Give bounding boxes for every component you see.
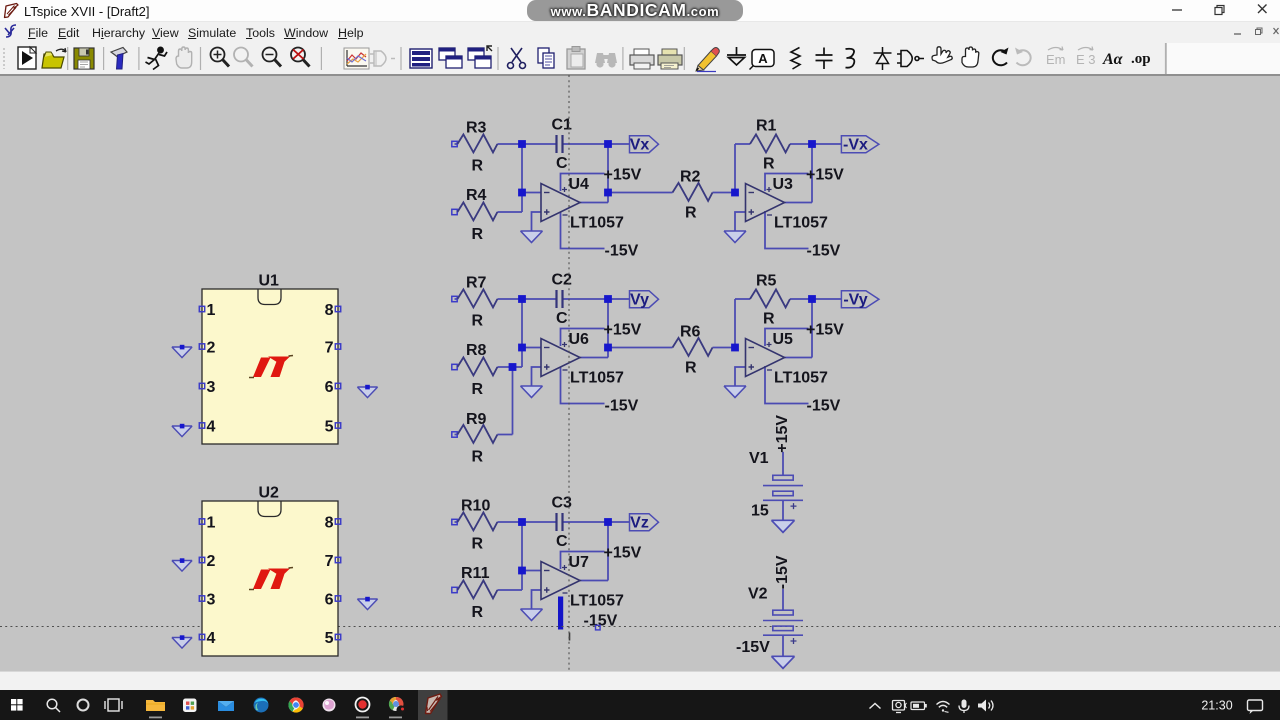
resistor R6 <box>673 324 713 377</box>
node A1 junction <box>518 140 526 148</box>
svg-text:R: R <box>685 205 697 222</box>
svg-text:R5: R5 <box>756 273 777 290</box>
svg-text:LT1057: LT1057 <box>570 370 624 387</box>
resistor R5 <box>750 273 790 328</box>
svg-text:C: C <box>556 155 568 172</box>
wire U4 V+ to +15V <box>561 174 605 192</box>
wire R4 to node C1 <box>497 211 522 213</box>
node C1 junction <box>518 189 526 197</box>
mouse anchor square on crosshair <box>596 625 601 630</box>
svg-text:U7: U7 <box>569 554 590 571</box>
wire U6 noninverting to ground <box>532 367 542 386</box>
voltage source V2 <box>736 586 803 657</box>
svg-text:R: R <box>472 226 484 243</box>
U1 pin squares <box>199 306 340 428</box>
svg-text:C1: C1 <box>552 117 573 134</box>
ground at U2 pin 6 <box>357 597 377 610</box>
highlighted wire segment being drawn at U7 V- <box>558 597 563 630</box>
svg-text:+15V: +15V <box>774 415 791 453</box>
svg-text:7: 7 <box>325 340 334 357</box>
wire node E2 up to R5 <box>735 299 750 348</box>
svg-text:6: 6 <box>325 379 334 396</box>
ground below V1 <box>771 520 794 532</box>
wire U7 output <box>580 522 608 581</box>
ground below U3 <box>724 231 746 243</box>
taskbar <box>0 690 1280 720</box>
capacitor C2 <box>552 272 573 328</box>
resistor R7 <box>452 275 498 330</box>
svg-text:2: 2 <box>207 553 216 570</box>
node F1 junction <box>808 140 816 148</box>
node E2 junction <box>731 344 739 352</box>
svg-text:U5: U5 <box>773 331 794 348</box>
svg-text:V2: V2 <box>748 586 768 603</box>
wire V1 top <box>782 452 784 476</box>
svg-text:-15V: -15V <box>774 555 791 589</box>
wire R5 to node F2 <box>790 298 812 300</box>
ground at U1 pin 6 <box>357 385 377 398</box>
svg-text:2: 2 <box>207 340 216 357</box>
svg-text:U1: U1 <box>259 273 280 290</box>
svg-text:15: 15 <box>751 503 769 520</box>
wire R8 to node <box>497 366 522 368</box>
svg-text:-15V: -15V <box>807 243 841 260</box>
svg-text:R7: R7 <box>466 275 487 292</box>
wire U3 noninverting to ground <box>735 212 746 231</box>
svg-text:21:30: 21:30 <box>1201 699 1232 713</box>
svg-text:5: 5 <box>325 419 334 436</box>
svg-text:R: R <box>763 311 775 328</box>
node A3 junction <box>518 518 526 526</box>
svg-text:R2: R2 <box>680 169 701 186</box>
svg-text:+15V: +15V <box>806 167 844 184</box>
LT logo U1 <box>249 356 293 378</box>
app icon <box>3 2 20 19</box>
svg-text:7: 7 <box>325 553 334 570</box>
wire R6 to node E2 <box>713 347 736 349</box>
wire U3 output up to node F1 <box>784 144 812 203</box>
net flag -Vx <box>841 136 879 154</box>
svg-text:-Vy: -Vy <box>843 292 867 309</box>
node A2 junction <box>518 295 526 303</box>
wire V1 bottom to ground <box>782 500 784 520</box>
wire U6 V+ to +15V <box>561 329 605 347</box>
MDI child icon + menu <box>2 23 20 40</box>
wire V2 top <box>782 589 784 610</box>
svg-text:R: R <box>472 604 484 621</box>
wire C2 to Vy flag <box>563 298 630 300</box>
wire inverting input U4 <box>522 192 541 194</box>
svg-text:R6: R6 <box>680 324 701 341</box>
svg-text:3: 3 <box>207 379 216 396</box>
op-amp U7 <box>541 554 624 610</box>
node C3 junction <box>518 567 526 575</box>
window buttons <box>1160 0 1280 20</box>
svg-text:U3: U3 <box>773 176 794 193</box>
svg-text:R11: R11 <box>461 565 490 582</box>
MDI child window buttons <box>1230 23 1280 40</box>
svg-text:.op: .op <box>1131 51 1151 67</box>
node R8/R9 junction <box>509 363 517 371</box>
svg-text:C: C <box>556 533 568 550</box>
svg-text:U6: U6 <box>569 331 590 348</box>
voltage source V1 <box>749 450 803 520</box>
op-amp U3 <box>746 176 829 232</box>
wire node R8 down to R9 <box>512 367 514 435</box>
svg-text:Em: Em <box>1046 52 1066 67</box>
wire node F2 to -Vy flag <box>812 298 841 300</box>
wire U3 V+ to +15V <box>765 174 809 192</box>
resistor R4 <box>452 187 498 243</box>
svg-text:5: 5 <box>325 630 334 647</box>
svg-text:R: R <box>472 158 484 175</box>
ground below U6 <box>521 386 543 398</box>
wire R1 to node F1 <box>790 143 812 145</box>
toolbar icons <box>0 43 1280 74</box>
node C2 junction <box>518 344 526 352</box>
svg-text:A: A <box>758 51 768 66</box>
wire R7 to C2 <box>455 298 557 300</box>
svg-text:C: C <box>556 310 568 327</box>
svg-text:R3: R3 <box>466 120 487 137</box>
capacitor C3 <box>552 495 573 551</box>
svg-text:R: R <box>472 381 484 398</box>
svg-text:Vz: Vz <box>630 515 649 532</box>
node B1 junction <box>604 140 612 148</box>
wire R11 to node C3 <box>497 589 522 591</box>
svg-text:8: 8 <box>325 302 334 319</box>
resistor R2 <box>673 169 713 222</box>
wire node D2 to R6 <box>608 347 673 349</box>
net flag Vy <box>630 291 659 309</box>
svg-text:LT1057: LT1057 <box>570 593 624 610</box>
svg-text:R: R <box>472 313 484 330</box>
capacitor C1 <box>552 117 573 173</box>
svg-text:1: 1 <box>207 302 216 319</box>
wire node A2 down <box>521 299 523 367</box>
svg-text:R9: R9 <box>466 411 487 428</box>
wire U5 output up to node F2 <box>784 299 812 358</box>
svg-text:LT1057: LT1057 <box>774 215 828 232</box>
svg-text:E 3: E 3 <box>1076 52 1096 67</box>
wire R3 to C1 <box>455 143 557 145</box>
node F2 junction <box>808 295 816 303</box>
svg-text:1: 1 <box>207 515 216 532</box>
wire U5 V+ to +15V <box>765 329 809 347</box>
wire V2 bottom to ground <box>782 635 784 656</box>
svg-text:R10: R10 <box>461 498 490 515</box>
wire node E1 up to R1 <box>735 144 750 193</box>
wire R9 horizontal <box>455 434 513 436</box>
node B3 junction <box>604 518 612 526</box>
op-amp U6 <box>541 331 624 387</box>
svg-text:8: 8 <box>325 515 334 532</box>
IC U1 body <box>202 273 338 445</box>
resistor R11 <box>452 565 498 621</box>
wire R2 to node E1 <box>713 192 736 194</box>
svg-text:R4: R4 <box>466 187 487 204</box>
svg-text:LT1057: LT1057 <box>774 370 828 387</box>
op-amp U4 <box>541 176 624 232</box>
svg-text:-Vx: -Vx <box>843 137 868 154</box>
ground below U4 <box>521 231 543 243</box>
wire U3 V- to -15V <box>765 211 809 249</box>
svg-text:+15V: +15V <box>806 322 844 339</box>
svg-text:U4: U4 <box>569 176 590 193</box>
svg-text:4: 4 <box>207 630 216 647</box>
wire U7 V+ to +15V <box>561 552 605 570</box>
wire U7 noninverting to ground <box>532 590 542 609</box>
U2 pin numbers <box>207 515 334 648</box>
svg-text:-15V: -15V <box>605 243 639 260</box>
resistor R10 <box>452 498 498 553</box>
svg-text:R: R <box>472 536 484 553</box>
resistor R8 <box>452 342 498 398</box>
resistor R3 <box>452 120 498 175</box>
svg-text:-15V: -15V <box>736 639 770 656</box>
wire U6 output <box>580 299 608 358</box>
svg-text:V1: V1 <box>749 450 769 467</box>
svg-text:4: 4 <box>207 419 216 436</box>
U2 pin squares <box>199 519 340 640</box>
svg-text:U2: U2 <box>259 485 280 502</box>
wire U4 V- to -15V <box>561 212 605 249</box>
svg-text:Vy: Vy <box>630 292 649 309</box>
svg-text:6: 6 <box>325 592 334 609</box>
svg-text:3: 3 <box>207 592 216 609</box>
ground below V2 <box>771 656 794 668</box>
net flag Vz <box>630 514 659 532</box>
node B2 junction <box>604 295 612 303</box>
svg-text:R: R <box>685 360 697 377</box>
wire C3 to Vz flag <box>563 521 630 523</box>
ground below U7 <box>521 609 543 621</box>
wire node D1 to R2 <box>608 192 673 194</box>
wire U4 output <box>580 144 608 203</box>
ground at U1 pin 4 <box>172 424 192 437</box>
svg-text:-15V: -15V <box>807 398 841 415</box>
svg-text:-15V: -15V <box>605 398 639 415</box>
wire U4 noninverting to ground <box>532 212 542 231</box>
U1 pin numbers <box>207 302 334 436</box>
wire node A1 down to R4 <box>521 144 523 212</box>
svg-text:Aα: Aα <box>1102 51 1124 68</box>
wire U5 V- to -15V <box>765 366 809 404</box>
svg-text:R1: R1 <box>756 118 777 135</box>
resistor R1 <box>750 118 790 173</box>
wire inverting input U7 <box>522 570 541 572</box>
wire U5 noninverting to ground <box>735 367 746 386</box>
crosshair vertical <box>568 75 570 671</box>
LT logo U2 <box>249 568 293 590</box>
net flag -Vy <box>841 291 879 309</box>
wire C1 to Vx flag <box>563 143 630 145</box>
wire node F1 to -Vx flag <box>812 143 841 145</box>
wire U6 V- to -15V <box>561 367 605 404</box>
op-amp U5 <box>746 331 829 387</box>
svg-text:R: R <box>763 156 775 173</box>
ground at U2 pin 2 <box>172 558 192 571</box>
IC U2 body <box>202 485 338 657</box>
node D1 junction <box>604 189 612 197</box>
svg-text:+15V: +15V <box>604 167 642 184</box>
node D2 junction <box>604 344 612 352</box>
svg-text:LT1057: LT1057 <box>570 215 624 232</box>
wire node A3 down to R11 <box>521 522 523 590</box>
wire R10 to C3 <box>455 521 557 523</box>
wire inverting input U6 <box>522 347 541 349</box>
svg-text:+15V: +15V <box>604 545 642 562</box>
svg-text:+15V: +15V <box>604 322 642 339</box>
net flag Vx <box>630 136 659 154</box>
ground below U5 <box>724 386 746 398</box>
node E1 junction <box>731 189 739 197</box>
ground at U2 pin 4 <box>172 635 192 648</box>
crosshair horizontal <box>0 626 1280 628</box>
cursor tick mark <box>569 633 571 641</box>
resistor R9 <box>452 411 498 466</box>
ground at U1 pin 2 <box>172 345 192 358</box>
svg-text:R: R <box>472 449 484 466</box>
svg-text:Vx: Vx <box>630 137 650 154</box>
svg-text:R8: R8 <box>466 342 487 359</box>
